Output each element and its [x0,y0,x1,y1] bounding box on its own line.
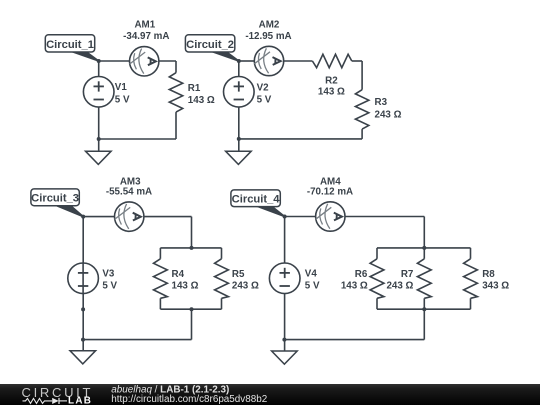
junction C3 left wire node B [81,338,85,342]
wire C3 bottom bus [160,308,221,310]
junction C1 bottom node [97,137,101,141]
svg-text:R8: R8 [482,269,495,280]
ammeter AM2 [254,46,283,75]
svg-text:243 Ω: 243 Ω [375,109,402,120]
voltage source V1 [83,77,114,108]
node label flag Circuit_1 [45,35,98,61]
svg-text:243 Ω: 243 Ω [232,281,259,292]
svg-text:LAB: LAB [68,396,92,405]
svg-text:-55.54 mA: -55.54 mA [106,187,152,198]
junction node Circuit_2 [237,59,241,63]
wire C2 bottom [239,138,362,140]
svg-text:V1: V1 [115,82,128,93]
svg-text:-12.95 mA: -12.95 mA [245,31,291,42]
svg-text:5 V: 5 V [305,281,320,292]
svg-text:243 Ω: 243 Ω [386,281,413,292]
svg-text:R4: R4 [172,269,185,280]
svg-text:V2: V2 [257,83,270,94]
junction C3 bottom bus node [190,307,194,311]
node label flag Circuit_4 [231,190,285,217]
wire C4 node to ammeter [285,216,316,218]
logo diode symbol [52,398,59,404]
svg-text:143 Ω: 143 Ω [318,86,345,97]
voltage source V3 [68,263,99,294]
svg-text:Circuit_3: Circuit_3 [31,193,79,205]
wire C2 R2 to corner [352,60,362,62]
logo resistor squiggle [23,398,53,403]
svg-text:http://circuitlab.com/c8r6pa5d: http://circuitlab.com/c8r6pa5dv88b2 [111,394,267,405]
ground GND4 [272,351,298,364]
wire C3 left vertical [82,217,84,351]
wire C4 bottom bus [377,308,471,310]
wire C2 ammeter to R2 [284,60,313,62]
wire C3 ammeter to riser [144,216,192,218]
resistor R1 [169,73,182,112]
wire C1 left vertical [98,61,100,151]
svg-text:AM2: AM2 [259,20,280,31]
resistor R2 [312,54,351,67]
svg-text:143 Ω: 143 Ω [341,281,368,292]
wire C4 riser bottom [423,309,425,339]
ammeter AM1 [130,47,159,76]
svg-text:Circuit_2: Circuit_2 [186,39,234,51]
svg-text:R5: R5 [232,269,245,280]
junction node Circuit_3 [81,215,85,219]
junction C4 top bus node [422,246,426,250]
ground GND1 [86,151,112,164]
svg-text:143 Ω: 143 Ω [172,281,199,292]
wire C2 right vertical bottom [361,129,363,139]
node label flag Circuit_2 [185,35,238,61]
wire C3 bottom horizontal [83,339,192,341]
wire C3 node to ammeter [83,216,115,218]
svg-text:-70.12 mA: -70.12 mA [307,187,353,198]
junction C2 bottom node [237,137,241,141]
wire C4 top bus [377,247,471,249]
junction node Circuit_4 [283,215,287,219]
svg-text:R3: R3 [375,97,388,108]
wire C1 right vertical top [175,61,177,73]
resistor R3 [355,90,368,129]
wire C3 riser to top bus [191,217,193,248]
svg-text:5 V: 5 V [257,95,272,106]
svg-text:V4: V4 [305,268,318,279]
voltage source V4 [269,263,300,294]
wire C3 riser bottom [191,309,193,339]
svg-text:-34.97 mA: -34.97 mA [123,31,169,42]
resistor R4 [159,248,161,259]
wire C4 bottom horizontal [284,339,424,341]
svg-text:V3: V3 [102,269,115,280]
svg-text:Circuit_1: Circuit_1 [46,39,94,51]
resistor R5 [221,248,223,259]
svg-text:5 V: 5 V [102,281,117,292]
ammeter AM3 [115,202,144,231]
junction C3 left wire node A [81,307,85,311]
junction C4 left wire node [282,338,286,342]
wire C3 top bus [160,247,221,249]
wire C1 right vertical bottom [175,112,177,139]
wire C2 right vertical top [361,61,363,90]
svg-text:R7: R7 [401,269,414,280]
svg-text:R6: R6 [355,269,368,280]
wire C1 bottom [99,138,176,140]
ground GND3 [70,351,96,364]
ammeter AM4 [316,202,345,231]
wire C4 riser to top bus [423,217,425,248]
svg-text:143 Ω: 143 Ω [188,95,215,106]
svg-text:5 V: 5 V [115,94,130,105]
resistor R6 [376,248,378,259]
junction node Circuit_1 [97,59,101,63]
wire C1 top-left node to ammeter [99,60,130,62]
wire C1 ammeter to right corner [159,60,176,62]
junction C3 top bus node [190,246,194,250]
voltage source V2 [224,77,255,108]
resistor R8 [470,248,472,259]
svg-text:AM1: AM1 [134,20,155,31]
svg-text:343 Ω: 343 Ω [482,280,509,291]
wire C2 node to ammeter [239,60,255,62]
svg-text:R1: R1 [188,83,201,94]
wire C4 ammeter to riser [345,216,425,218]
resistor R7 [423,248,425,259]
wire C2 left vertical [238,61,240,151]
node label flag Circuit_3 [31,189,83,217]
wire C4 left vertical [284,217,286,352]
ground GND2 [226,151,252,164]
svg-text:R2: R2 [325,76,338,87]
svg-text:Circuit_4: Circuit_4 [232,193,281,205]
junction C4 bottom bus node [422,307,426,311]
